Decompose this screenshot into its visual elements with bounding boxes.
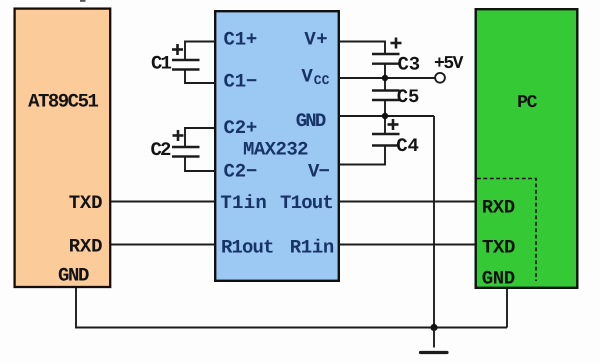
wire Vcc to +5V terminal — [339, 77, 435, 79]
wire TXD to T1in — [111, 201, 215, 203]
svg-text:AT89C51: AT89C51 — [28, 91, 98, 113]
capacitor C5 — [372, 91, 400, 135]
svg-text:GND: GND — [482, 267, 515, 289]
svg-text:R1out: R1out — [221, 237, 274, 259]
svg-text:TXD: TXD — [69, 192, 103, 214]
junction node ground bus — [430, 324, 437, 331]
stray artifact mark top-left — [80, 0, 86, 2]
svg-text:C2−: C2− — [224, 160, 258, 182]
wire C3 bottom to Vcc node — [384, 64, 386, 91]
svg-text:T1out: T1out — [280, 192, 333, 214]
serial connector dashed outline inside PC — [477, 179, 536, 282]
wire PC GND down — [506, 289, 508, 328]
junction node GND/C5/C4 — [382, 113, 388, 119]
C5 plates — [372, 89, 400, 91]
C3 plus mark — [391, 42, 402, 45]
wire GND pin to down bus — [339, 115, 434, 117]
svg-text:R1in: R1in — [290, 237, 334, 259]
svg-text:C3: C3 — [397, 54, 420, 76]
IC U2 AT89C51 box — [15, 9, 111, 287]
wire V+ pin to C3 top — [339, 42, 385, 55]
wire R1in to PC TXD — [339, 244, 475, 246]
svg-text:C1+: C1+ — [224, 29, 258, 51]
C1 plates — [172, 59, 200, 61]
wire T1out to PC RXD — [339, 201, 475, 203]
wire cap bottom to C1- pin — [185, 70, 215, 84]
svg-text:V−: V− — [308, 160, 330, 182]
wire ground bus vertical — [433, 116, 435, 328]
svg-text:C4: C4 — [396, 135, 419, 157]
capacitor C1 — [172, 42, 215, 84]
wire C5 bottom to GND node — [384, 100, 386, 134]
PC box — [476, 9, 578, 288]
svg-text:TXD: TXD — [482, 237, 515, 259]
C4 plates — [372, 133, 400, 135]
svg-text:+5V: +5V — [434, 54, 464, 74]
wire C4 bottom to V- pin — [339, 146, 385, 165]
wire C1+ pin to cap top — [185, 42, 215, 61]
svg-text:GND: GND — [296, 110, 326, 132]
svg-text:RXD: RXD — [482, 197, 515, 219]
ground bar — [421, 351, 448, 354]
svg-text:C2+: C2+ — [224, 117, 258, 139]
capacitor C4 — [339, 119, 400, 165]
svg-text:C1−: C1− — [224, 70, 258, 92]
capacitor C2 — [172, 128, 215, 171]
wire C2+ pin to cap top — [185, 128, 215, 147]
svg-text:V+: V+ — [304, 29, 328, 51]
C4 plus mark — [388, 123, 399, 126]
wire RXD to R1out — [111, 244, 215, 246]
wire AT89C51 GND down — [76, 288, 507, 328]
C1 plus mark — [172, 48, 183, 51]
svg-text:MAX232: MAX232 — [243, 138, 308, 160]
svg-text:T1in: T1in — [220, 192, 267, 214]
svg-text:PC: PC — [517, 93, 538, 113]
svg-text:C2: C2 — [150, 139, 171, 161]
C3 plates — [372, 53, 400, 55]
C2 plates — [172, 146, 200, 148]
svg-text:RXD: RXD — [69, 235, 103, 257]
svg-text:C1: C1 — [151, 53, 172, 75]
IC U1 MAX232 box — [215, 11, 339, 281]
svg-text:GND: GND — [58, 264, 89, 286]
capacitor C3 — [339, 38, 402, 91]
wire cap bottom to C2- pin — [185, 157, 215, 172]
+5V terminal circle — [435, 73, 445, 83]
svg-text:C5: C5 — [397, 86, 420, 108]
junction node Vcc/C3/C5 — [382, 75, 388, 81]
ground stem — [433, 328, 435, 348]
C2 plus mark — [173, 134, 184, 137]
